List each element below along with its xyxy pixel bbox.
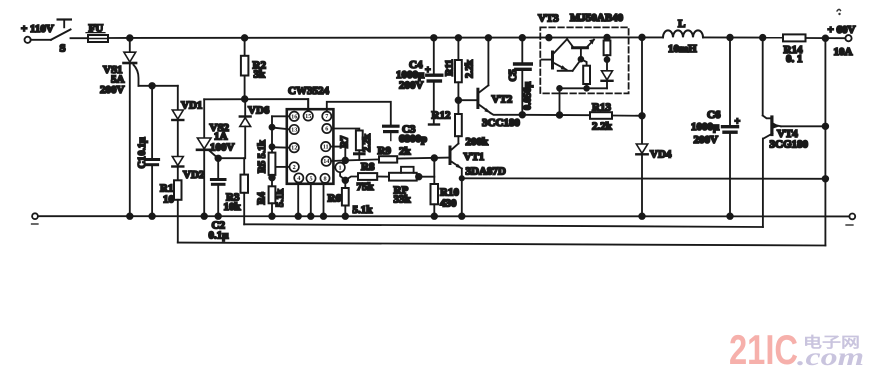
resistor R14 (783, 34, 845, 65)
svg-text:14: 14 (323, 158, 329, 165)
resistor R8 (357, 161, 390, 193)
svg-text:VD6: VD6 (248, 105, 270, 117)
svg-text:R11: R11 (445, 59, 456, 76)
node junction VT4 base branch (760, 35, 766, 41)
node junction RP right (416, 174, 422, 180)
svg-text:10mH: 10mH (668, 43, 697, 55)
svg-text:+: + (425, 65, 431, 76)
pin 13 (290, 125, 299, 134)
transistor Q1 inside VT3 (551, 52, 554, 68)
wire base drive line to R13 (522, 114, 590, 116)
resistor R13 (590, 102, 642, 133)
capacitor C2 (209, 158, 230, 241)
transistor Q2 inside VT3 (573, 46, 588, 49)
resistor R inside VT3 (base) (581, 59, 587, 65)
svg-text:VD2: VD2 (183, 169, 205, 181)
pin 15 (304, 111, 313, 120)
thyristor VS1 (100, 38, 139, 216)
svg-text:R4: R4 (257, 192, 268, 204)
svg-text:2.2k: 2.2k (465, 60, 476, 79)
fuse FU (86, 23, 108, 43)
svg-text:3k: 3k (254, 69, 267, 81)
node junction R10 top (432, 155, 438, 161)
svg-text:0.1μ: 0.1μ (137, 137, 148, 156)
svg-text:R5 5.1k: R5 5.1k (257, 140, 268, 173)
node junction rail C2 (215, 213, 221, 219)
resistor R9 (378, 145, 412, 163)
node junction pin12 (270, 144, 275, 149)
svg-text:4: 4 (297, 175, 300, 182)
pin 12 (290, 143, 299, 152)
svg-text:0. 1: 0. 1 (786, 53, 803, 65)
transistor VT1 (450, 144, 506, 217)
svg-text:2.2k: 2.2k (362, 134, 373, 153)
svg-text:33k: 33k (394, 194, 412, 206)
wire VT3 internal emitter line (560, 87, 608, 89)
wire pin4 down (297, 181, 299, 216)
wire pin5 down (310, 182, 312, 216)
wire pin7 to C3 (327, 102, 391, 125)
svg-text:5: 5 (309, 175, 312, 182)
svg-text:3CC180: 3CC180 (482, 117, 520, 129)
wire rail inductor to R14 (703, 36, 783, 38)
pin 2 (290, 162, 299, 171)
thyristor VS2 (197, 99, 235, 216)
svg-text:11: 11 (323, 144, 329, 151)
svg-text:VT1: VT1 (464, 151, 485, 163)
wire VT3 emitter exit (559, 88, 561, 115)
node junction rail C6 (727, 213, 733, 219)
wire R9 to VT1 base (397, 158, 449, 159)
svg-text:13: 13 (291, 127, 297, 134)
svg-text:+ 60V: + 60V (828, 24, 856, 36)
wire left vertical R5 chain (271, 116, 273, 152)
node: bottom left terminal (32, 213, 39, 224)
node junction rail R6 (343, 213, 349, 219)
wire pin11 to line A (330, 147, 345, 161)
wire sense vertical right (824, 38, 826, 245)
wire pin14 stub (331, 159, 346, 162)
svg-text:VT3: VT3 (538, 13, 559, 25)
svg-text:R9: R9 (378, 145, 392, 157)
svg-text:R13: R13 (592, 102, 611, 114)
wire pin6 to R7 (331, 129, 359, 131)
node junction rail C1 (149, 213, 155, 219)
resistor R5 (257, 140, 275, 187)
node junction VT3 emitter exit (557, 112, 563, 118)
node junction VT3 collector (546, 35, 552, 41)
node junction rail VS1 (127, 213, 133, 219)
svg-text:5.1k: 5.1k (275, 189, 286, 208)
node junction VT1 emitter line (460, 176, 464, 180)
svg-text:6: 6 (325, 126, 328, 133)
node junction output (823, 35, 829, 41)
resistor R1 (160, 180, 182, 242)
svg-text:2: 2 (293, 164, 296, 171)
node junction rail pin4 (295, 213, 301, 219)
node junction rail R10 (432, 213, 438, 219)
svg-text:15: 15 (305, 113, 311, 120)
svg-text:21IC: 21IC (729, 326, 798, 373)
diode VD4 (636, 37, 672, 216)
svg-text:R8: R8 (361, 161, 375, 173)
node junction rail pin8 (321, 213, 327, 219)
node junction pin1/R8/R6 (343, 178, 349, 184)
pin 4 (294, 173, 303, 182)
node junction C2 top (215, 156, 221, 162)
svg-text:VD1: VD1 (181, 100, 202, 112)
svg-text:5.1k: 5.1k (353, 204, 374, 216)
wire bottom rail (38, 215, 849, 217)
node: bottom right terminal (846, 214, 855, 226)
svg-text:200V: 200V (694, 134, 719, 146)
wire pin13 stub (272, 128, 290, 130)
node junction pins11-14 (343, 158, 349, 164)
svg-text:0.1μ: 0.1μ (209, 230, 230, 242)
switch S (51, 20, 71, 55)
diode VD1 (172, 86, 202, 157)
wire node to R8 (345, 177, 358, 181)
resistor R inside VT3 (collector) (606, 38, 608, 41)
pin 6 (322, 124, 331, 133)
op-amp IC U1 CW3524 (287, 85, 334, 184)
pin 16 (290, 112, 299, 121)
node junction R5/R4 (269, 175, 275, 181)
wire feedback line 1 (VT4 collector to R3) (244, 224, 763, 227)
svg-text:200V: 200V (100, 84, 125, 96)
wire pin15 up stub (307, 99, 309, 111)
svg-text:C1: C1 (137, 156, 148, 168)
resistor R2 (241, 38, 267, 99)
svg-text:8: 8 (323, 175, 326, 182)
resistor R11 (445, 38, 476, 114)
svg-text:C5: C5 (508, 69, 519, 81)
wire pin8 down (323, 182, 325, 216)
capacitor C1 (137, 86, 159, 216)
diode inside VT3 (602, 71, 613, 80)
resistor R6 (328, 180, 374, 216)
pin 5 (306, 174, 315, 183)
wire pin1 to node (340, 172, 345, 180)
svg-text:16: 16 (291, 113, 297, 120)
svg-text:200V: 200V (399, 80, 424, 92)
node junction VD4 top (639, 35, 645, 41)
resistor R7 (340, 131, 374, 160)
wire VS1 gate line (139, 85, 178, 87)
potentiometer RP (389, 167, 434, 206)
svg-text:10: 10 (163, 194, 175, 206)
node junction VT4 emitter (823, 124, 829, 130)
node junction pin13 (270, 125, 275, 130)
capacitor C3 (384, 124, 428, 146)
svg-text:C6: C6 (707, 109, 721, 121)
svg-text:430: 430 (440, 198, 457, 210)
resistor R10 (431, 158, 460, 216)
svg-text:200k: 200k (466, 136, 490, 148)
svg-text:MJ50AB40: MJ50AB40 (570, 12, 624, 24)
svg-text:2.2k: 2.2k (592, 121, 613, 133)
svg-text:0.056μ: 0.056μ (523, 82, 534, 111)
svg-text:75k: 75k (357, 181, 375, 193)
resistor R3 (224, 158, 249, 224)
transistor VT4 (763, 38, 826, 227)
svg-text:VD4: VD4 (650, 149, 672, 161)
capacitor C6 (691, 38, 741, 217)
wire to VT2 base (458, 99, 476, 101)
svg-text:12: 12 (291, 145, 297, 152)
pin 1 (335, 163, 345, 173)
node junction rail VD4 (639, 213, 645, 219)
wire pin2 stub (276, 166, 290, 168)
wire trigger line to pin15 (204, 99, 308, 111)
pin 8 (320, 174, 329, 183)
node junction rail VT1e (459, 213, 465, 219)
svg-text:6800p: 6800p (399, 133, 427, 145)
svg-text:CW3524: CW3524 (288, 85, 329, 97)
node junction R11 bottom / VT2 base (456, 97, 462, 103)
node junction VD6 top / R2 bottom (242, 96, 248, 102)
svg-text:100V: 100V (210, 142, 235, 154)
svg-text:7: 7 (325, 113, 328, 120)
capacitor C4 (396, 38, 442, 125)
node junction rail VS2 (201, 213, 207, 219)
node junction rail R4 (269, 213, 275, 219)
watermark 21IC.com logo (729, 326, 864, 373)
pin 11 (321, 142, 330, 151)
wire VS2 gate node (218, 157, 245, 159)
wire switch to fuse (71, 37, 89, 39)
inductor L (663, 18, 703, 55)
svg-text:+ 110V: + 110V (21, 23, 54, 35)
svg-text:10k: 10k (224, 201, 242, 213)
node junction VT2 collector (486, 35, 492, 41)
diode VD2 (172, 157, 205, 182)
node: +110V input terminal (21, 23, 54, 43)
node junction C4 top (431, 35, 437, 41)
transistor VT3 MJ50AB40 darlington module (538, 12, 629, 115)
node junction VT3 emitter rail (604, 35, 610, 41)
node junction C5 bottom (520, 112, 526, 118)
wire top rail (fuse to inductor) (108, 36, 663, 39)
node junction R11 top (456, 35, 462, 41)
svg-text:+: + (735, 117, 741, 128)
wire pin12 stub (272, 146, 290, 149)
svg-text:S: S (60, 43, 66, 55)
wire terminal to switch (31, 39, 51, 41)
svg-text:3DA87D: 3DA87D (466, 166, 506, 178)
resistor R4 (257, 186, 287, 216)
node: +60V output terminal (828, 9, 856, 58)
svg-text:3CG180: 3CG180 (770, 139, 809, 151)
svg-text:VT2: VT2 (492, 94, 513, 106)
svg-text:L: L (678, 18, 685, 30)
svg-text:R12: R12 (432, 110, 451, 122)
diode VD6 (240, 99, 270, 158)
node junction C5 top (520, 35, 526, 41)
wire line A to R9 (345, 159, 379, 160)
svg-text:2k: 2k (399, 146, 412, 158)
svg-text:10A: 10A (834, 46, 853, 58)
wire feedback line 2 (output sense to R1) (178, 243, 826, 246)
transistor VT2 (478, 38, 522, 129)
pin 14 (322, 157, 331, 166)
svg-text:R6: R6 (328, 193, 342, 205)
node junction R2 top (242, 35, 248, 41)
capacitor C5 (508, 38, 534, 115)
svg-text:.com: .com (797, 344, 864, 371)
wire pin16 to left vertical (272, 115, 290, 117)
svg-text:1000μ: 1000μ (691, 121, 720, 133)
node junction C6 top (727, 35, 733, 41)
node junction C1 top (149, 83, 155, 89)
node junction sense/line178 (823, 176, 829, 182)
node junction rail pin5 (308, 213, 314, 219)
node junction R13 right (639, 113, 645, 119)
pin 7 (322, 112, 331, 121)
resistor R12 (432, 110, 490, 149)
svg-text:1: 1 (339, 164, 342, 171)
wire emitter line y178 (462, 177, 826, 180)
node junction VS1 anode (127, 35, 133, 41)
